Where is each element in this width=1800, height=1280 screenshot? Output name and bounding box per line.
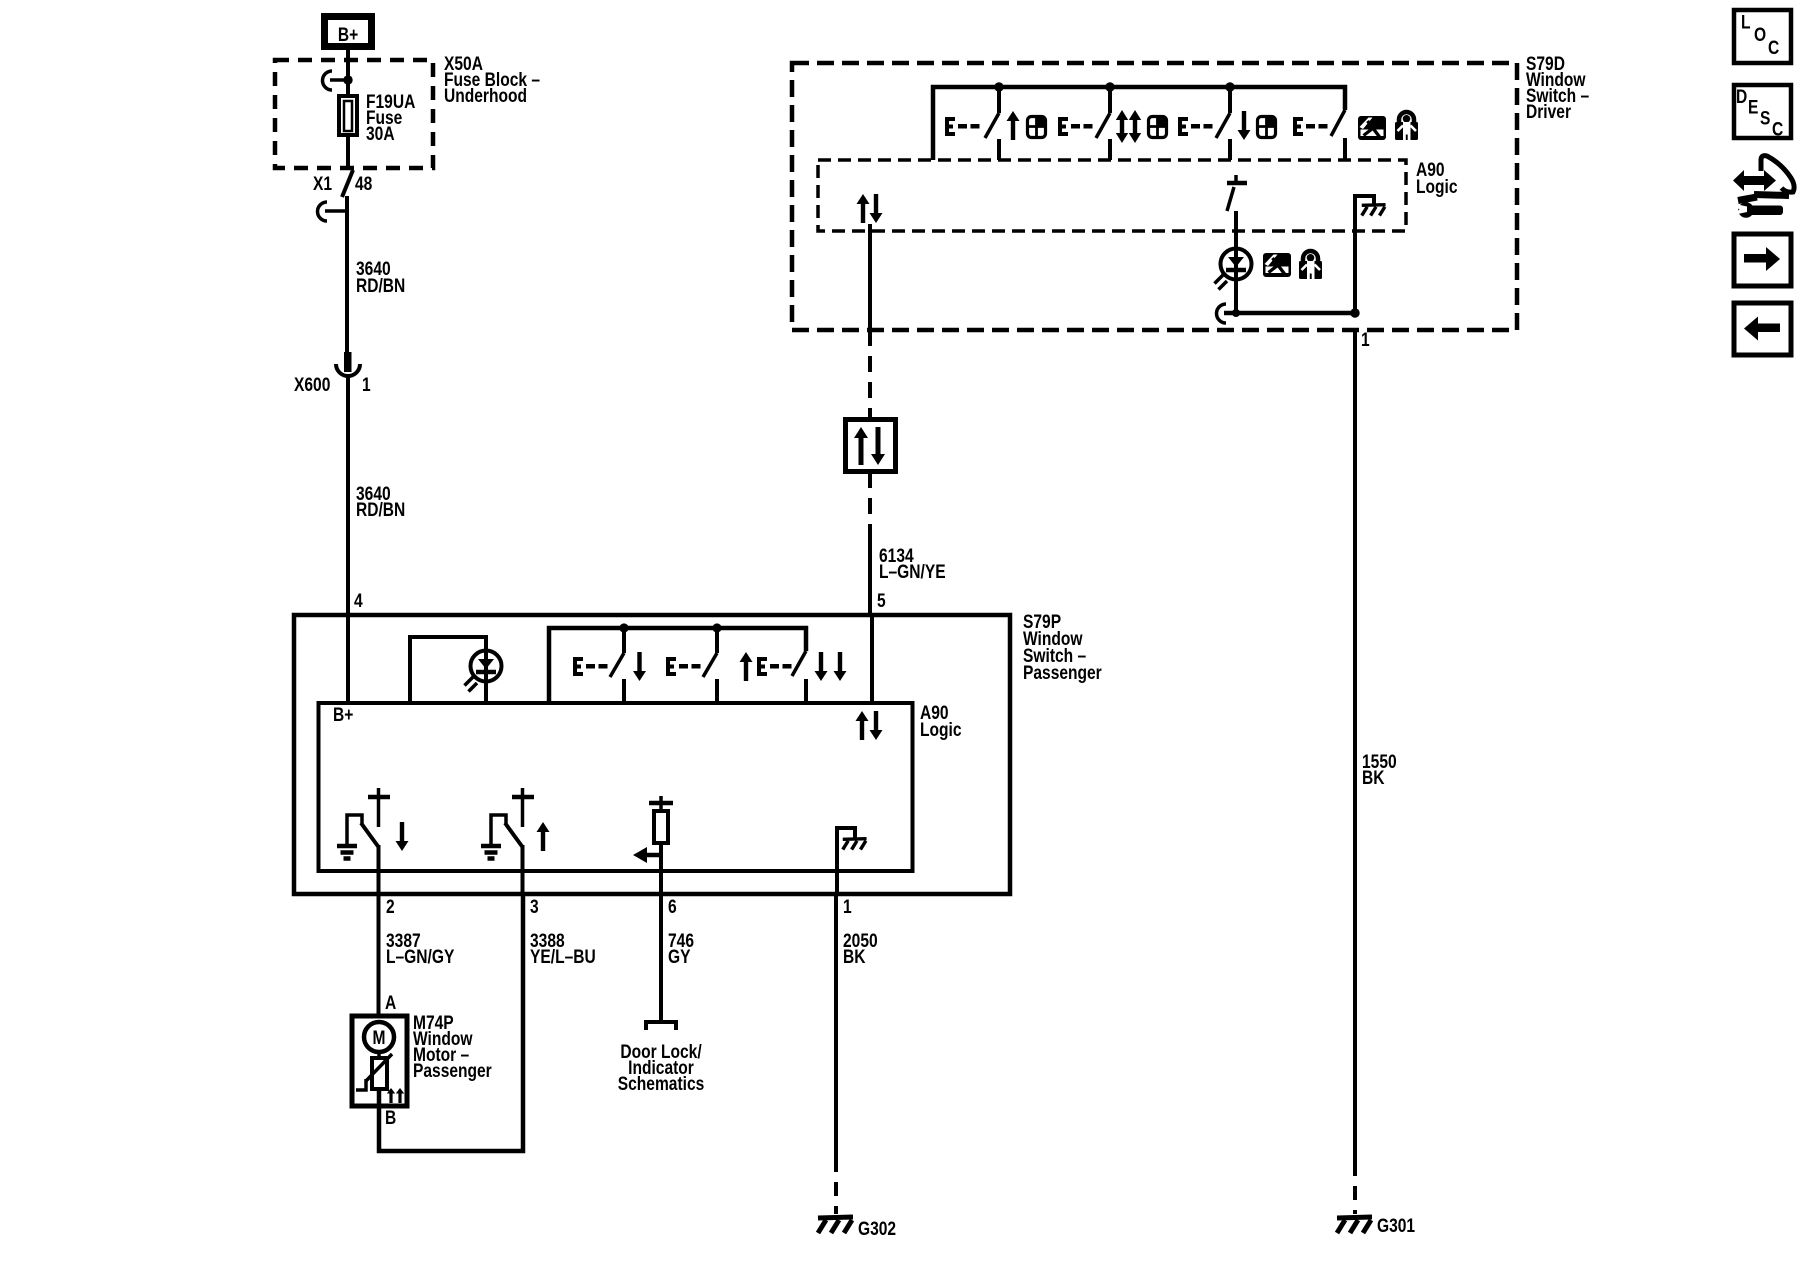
svg-text:3: 3 [530,896,539,918]
svg-text:6: 6 [668,896,677,918]
svg-text:Logic: Logic [1416,176,1458,198]
svg-text:RD/BN: RD/BN [356,275,405,297]
svg-text:Underhood: Underhood [444,85,527,107]
svg-text:E: E [1748,96,1758,118]
svg-text:D: D [1736,86,1747,108]
svg-text:L–GN/YE: L–GN/YE [879,561,946,583]
svg-text:M: M [373,1027,386,1049]
svg-text:BK: BK [843,946,866,968]
svg-text:O: O [1754,24,1766,46]
svg-text:Passenger: Passenger [1023,662,1102,684]
svg-text:C: C [1768,37,1780,59]
svg-text:2: 2 [386,896,395,918]
svg-text:Schematics: Schematics [618,1073,705,1095]
svg-text:48: 48 [355,173,373,195]
svg-text:GY: GY [668,946,691,968]
svg-text:B+: B+ [333,704,353,726]
svg-text:Passenger: Passenger [413,1060,492,1082]
svg-text:L–GN/GY: L–GN/GY [386,946,455,968]
svg-text:C: C [1772,118,1784,140]
svg-text:5: 5 [877,590,886,612]
svg-text:A: A [385,992,397,1014]
svg-text:X600: X600 [294,374,330,396]
svg-text:RD/BN: RD/BN [356,499,405,521]
svg-text:L: L [1741,11,1751,33]
svg-text:YE/L–BU: YE/L–BU [530,946,596,968]
svg-text:S: S [1760,107,1770,129]
svg-text:G302: G302 [858,1218,896,1240]
svg-text:X1: X1 [313,173,332,195]
svg-text:Driver: Driver [1526,101,1571,123]
svg-text:4: 4 [354,590,363,612]
svg-text:1: 1 [362,374,371,396]
svg-text:30A: 30A [366,123,395,145]
svg-text:1: 1 [843,896,852,918]
svg-text:G301: G301 [1377,1215,1415,1237]
svg-text:B: B [385,1107,396,1129]
svg-text:B+: B+ [338,24,358,46]
svg-text:Logic: Logic [920,719,962,741]
svg-text:BK: BK [1362,767,1385,789]
svg-text:1: 1 [1361,329,1370,351]
